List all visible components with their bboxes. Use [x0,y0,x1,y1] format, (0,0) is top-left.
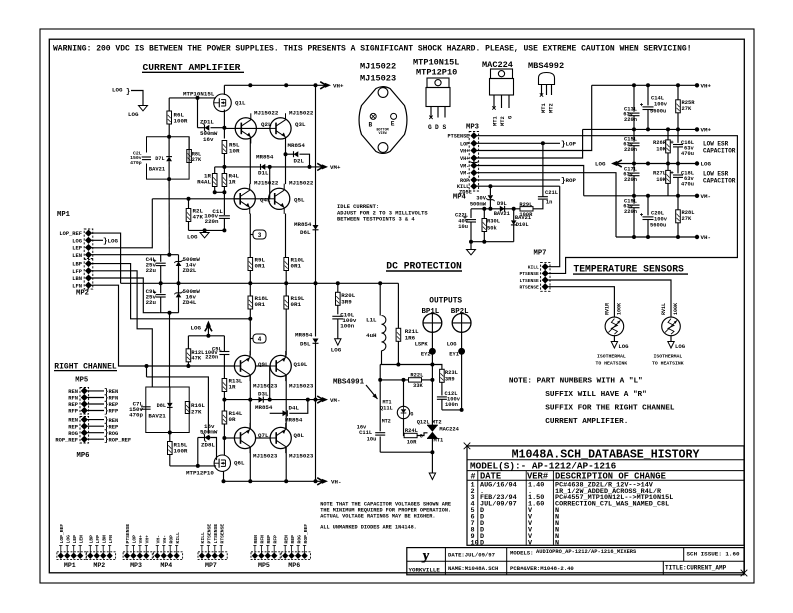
wire [432,365,442,370]
svg-text:MP5: MP5 [258,562,270,569]
resistor R9L 0R1 [248,258,253,271]
resistor R25R 27K [677,85,679,100]
wire Q2L emitter / Q4L collector [249,137,251,184]
svg-text:3R9: 3R9 [445,377,455,383]
svg-text:RIGHT CHANNEL: RIGHT CHANNEL [54,362,117,371]
svg-text:MT1: MT1 [541,103,547,113]
svg-text:47K: 47K [193,214,204,221]
diode D8L BAV21 [169,387,171,403]
svg-text:D1L: D1L [258,170,269,177]
svg-text:SCH ISSUE: 1.60: SCH ISSUE: 1.60 [687,551,740,558]
svg-text:L1L: L1L [366,317,377,324]
capacitor C19L 63v 220n [633,196,635,204]
svg-text:LFN: LFN [72,283,82,289]
net arrow LOG up [205,325,212,331]
svg-text:MR854: MR854 [295,332,313,339]
svg-text:MP3: MP3 [130,562,142,569]
net arrow VH+ [320,82,326,89]
svg-text:B: B [369,121,373,128]
svg-text:MP2: MP2 [93,562,105,569]
svg-text:MT2: MT2 [500,116,506,126]
svg-text:470u: 470u [681,151,694,157]
svg-text:VM+: VM+ [701,127,712,134]
svg-text:VM-: VM- [701,193,711,200]
svg-text:Q1L: Q1L [235,100,246,107]
svg-text:REP: REP [68,402,78,408]
svg-text:LOG: LOG [108,238,119,245]
svg-text:LOG: LOG [675,343,686,350]
svg-text:Q9L: Q9L [258,361,269,368]
svg-text:0R1: 0R1 [255,301,266,308]
svg-text:MJ15023: MJ15023 [360,74,396,84]
svg-text:PTSENSE: PTSENSE [207,524,213,544]
svg-text:1R: 1R [229,384,236,391]
svg-text:JUL/09/97: JUL/09/97 [480,501,517,509]
svg-text:RV1R: RV1R [605,303,611,315]
svg-text:VM-: VM- [330,397,340,404]
svg-text:ROG: ROG [68,431,78,437]
wire VH- bottom rail [224,480,316,482]
svg-text:10u: 10u [458,224,468,230]
svg-text:0R1: 0R1 [291,301,302,308]
svg-text:KILL: KILL [175,532,181,543]
svg-text:TO HEATSINK: TO HEATSINK [652,361,684,367]
svg-text:MP1: MP1 [57,211,71,219]
wire Q10L base [256,365,271,367]
connector MP5 bottom row [251,552,280,560]
capacitor C14L 100v 5600u [647,85,649,105]
wire Q9L emitter / Q7L collector [249,375,251,429]
svg-text:DATE:JUL/09/97: DATE:JUL/09/97 [448,552,495,559]
wire VH+ top rail [224,84,325,86]
resistor R20L 3R9 [337,283,339,292]
svg-text:LEN: LEN [72,253,82,259]
svg-text:MBS4992: MBS4992 [528,61,564,71]
svg-text:RV1L: RV1L [661,303,667,315]
svg-text:470u: 470u [681,182,694,188]
wire node [159,312,178,314]
svg-text:D6L: D6L [300,229,311,236]
svg-text:G: G [508,116,514,119]
transistor Q2L MJ15022 [235,118,256,139]
wire R12L C5L top node [188,335,224,337]
svg-text:ROG: ROG [296,535,302,544]
svg-text:CORRECTION_C7L_WAS_NAMED_C8L: CORRECTION_C7L_WAS_NAMED_C8L [555,501,669,509]
svg-text:LOP: LOP [460,141,469,147]
svg-text:MR854: MR854 [285,417,303,424]
svg-text:BAV21: BAV21 [515,215,531,221]
resistor R26R 10K [667,129,669,140]
svg-text:CURRENT AMPLIFIER: CURRENT AMPLIFIER [143,62,241,73]
svg-text:VH-: VH- [162,535,168,544]
wire VM+ rail [583,128,697,130]
wire from MP2 LBP [92,264,251,319]
wire [170,465,216,467]
wire from MP1 LEN to C4L node [92,254,179,256]
wire from MP2 LBN [92,278,160,313]
eyelet EY2 [431,332,433,364]
wire VM- rail [584,195,697,197]
wire RTSENSE to RV1R [549,287,615,318]
svg-text:MJ15022: MJ15022 [254,110,279,117]
svg-text:RFN: RFN [109,396,119,402]
net arrow VH- [317,478,323,485]
svg-text:D: D [480,539,484,547]
svg-text:LOG: LOG [595,161,606,168]
svg-text:0R: 0R [229,416,236,423]
svg-text:22u: 22u [146,267,157,274]
table M1048A.SCH database history [467,446,744,545]
svg-text:MP2: MP2 [76,290,89,298]
svg-text:LOP_REF: LOP_REF [59,524,65,544]
svg-text:MTP12P10: MTP12P10 [416,68,457,78]
wire Q7L base [224,437,234,439]
svg-text:100v: 100v [654,102,668,108]
wire gate feed [169,97,216,99]
zener ZD4L 500mW 16v [178,283,180,293]
svg-text:RFN: RFN [260,535,266,544]
resistor R16L 27K [185,402,189,414]
svg-text:Q11L: Q11L [380,406,393,412]
svg-text:PTSENSE: PTSENSE [125,524,131,544]
capacitor C15L 63v 220n [633,129,635,141]
svg-text:ZD2L: ZD2L [183,267,197,274]
svg-text:LBN: LBN [101,535,107,544]
svg-text:VH+: VH+ [701,83,712,90]
svg-text:4: 4 [258,336,262,343]
resistor R13L 1R [223,356,225,379]
svg-text:CURRENT AMPLIFIER.: CURRENT AMPLIFIER. [545,418,628,426]
transistor Q7L MJ15023 [234,427,255,448]
wire from MP1 LEP [92,199,153,248]
svg-text:100R: 100R [174,118,188,125]
capacitor C10L 100v 100n [332,315,343,317]
resistor R21L 1R6 [397,283,399,328]
svg-text:LOG: LOG [187,234,198,241]
ground LOG RV1R [611,342,617,349]
svg-text:}: } [126,89,130,97]
corner mark [741,570,748,577]
resistor R10L 0R1 [284,258,289,271]
svg-text:50k: 50k [487,226,497,232]
svg-text:REN: REN [109,389,119,395]
svg-text:VH+: VH+ [460,156,469,162]
svg-text:ISOTHERMAL: ISOTHERMAL [654,354,683,360]
svg-text:ZD8L: ZD8L [201,442,215,449]
svg-text:10: 10 [471,539,479,547]
wire KILL [477,185,560,187]
svg-text:R30L: R30L [487,219,500,225]
svg-text:100n: 100n [340,323,354,330]
svg-text:REN: REN [253,535,259,544]
wire VM- row [224,399,315,401]
svg-text:MJ15023: MJ15023 [253,383,278,390]
svg-text:VM-: VM- [460,171,469,177]
svg-text:G: G [428,124,432,131]
svg-text:MTP12P10: MTP12P10 [186,470,214,477]
resistor R27L 10K [667,164,669,171]
svg-text:MT1: MT1 [493,116,499,126]
wire VH+ a [477,85,592,150]
svg-text:MR854: MR854 [255,404,273,411]
svg-text:VH-: VH- [331,479,341,486]
svg-text:100K: 100K [673,303,679,315]
svg-text:MT2: MT2 [382,419,391,425]
wire LTSENSE to RV1L [549,280,672,317]
wire [285,447,287,481]
svg-text:REN: REN [283,535,289,544]
svg-text:PTSENSE: PTSENSE [519,271,539,277]
svg-text:VH+: VH+ [145,535,151,544]
svg-text:R4AL: R4AL [197,179,211,186]
svg-text:LOG: LOG [128,111,139,118]
svg-text:VM-: VM- [460,164,469,170]
svg-text:SUFFIX WILL HAVE A "R": SUFFIX WILL HAVE A "R" [545,391,647,399]
svg-text:LOG: LOG [618,343,629,350]
title block [407,548,744,575]
svg-text:LBN: LBN [72,276,82,282]
svg-text:VM+: VM+ [330,164,341,171]
svg-text:LFN: LFN [108,535,114,544]
wire VM- a [477,166,584,196]
svg-text:ROP: ROP [168,535,174,544]
connector MP4 bottom row [153,552,182,560]
svg-text:220n: 220n [624,117,637,123]
svg-text:D9L: D9L [497,201,507,207]
resistor R18L 0R1 [249,283,251,296]
wire R22L row [380,379,408,381]
svg-text:MP4: MP4 [160,562,172,569]
ground LOG [139,106,148,111]
svg-text:RFP: RFP [68,409,78,415]
svg-text:10K: 10K [656,177,666,183]
svg-text:ROP: ROP [460,178,469,184]
svg-text:RTSENSE: RTSENSE [519,285,539,291]
svg-text:KILL: KILL [528,265,539,271]
svg-text:PTSENSE: PTSENSE [448,134,470,140]
svg-text:10R: 10R [407,440,417,446]
svg-text:IDLE CURRENT:: IDLE CURRENT: [337,204,379,210]
svg-text:VH-: VH- [156,535,162,544]
svg-text:G: G [410,412,413,418]
wire from MP1 pin1 [92,233,121,283]
svg-text:D4L: D4L [289,405,300,412]
svg-text:220n: 220n [624,209,637,215]
svg-text:470p: 470p [129,412,143,419]
svg-text:D10L: D10L [516,222,529,228]
svg-text:BETWEEN TESTPOINTS 3 & 4: BETWEEN TESTPOINTS 3 & 4 [337,217,415,223]
wire [131,91,143,106]
svg-text:MAC224: MAC224 [439,427,459,433]
svg-text:LOP: LOP [132,535,138,544]
wire VH- rail right [616,236,697,238]
svg-text:BAV21: BAV21 [148,413,166,420]
svg-text:27K: 27K [682,106,692,112]
wire VH+ rail right [592,84,697,86]
svg-text:LTSENSE: LTSENSE [519,278,539,284]
svg-text:VH+: VH+ [460,149,469,155]
svg-text:MJ15023: MJ15023 [289,383,314,390]
svg-text:LOG: LOG [191,325,202,332]
svg-text:220n: 220n [205,218,219,225]
mosfet Q1L MTP10N15L [223,85,225,95]
svg-text:ROP: ROP [566,177,577,184]
svg-text:NAME:M1048A.SCH: NAME:M1048A.SCH [448,565,498,572]
svg-text:ZD4L: ZD4L [183,299,197,306]
svg-text:100n: 100n [445,402,458,408]
net arrow down [429,473,435,480]
svg-text:CAPACITOR: CAPACITOR [703,178,736,185]
svg-text:TEMPERATURE SENSORS: TEMPERATURE SENSORS [573,264,684,275]
wire PTSENSE to right [477,136,737,274]
wire [431,365,433,426]
svg-text:MBS4991: MBS4991 [333,379,365,387]
box with C2L D7L R8L [147,137,190,179]
wire LOG node [189,229,225,231]
svg-text:220n: 220n [205,355,218,361]
border frame inner [49,39,744,573]
svg-text:MR854: MR854 [288,142,306,149]
svg-text:MT2: MT2 [432,420,442,426]
resistor R4AL 1R [214,167,216,174]
wire VH+ b [477,129,583,158]
wire node row [471,208,520,210]
svg-text:Q5L: Q5L [294,197,305,204]
wire from MP2 LFP [92,271,153,387]
svg-text:LOG: LOG [112,87,123,94]
net bracket LOG [92,239,104,241]
svg-text:D7L: D7L [155,156,164,162]
capacitor C13L 63v 220n [633,85,635,111]
resistor R8L 27K [188,137,190,150]
svg-text:BAV21: BAV21 [149,167,165,173]
svg-text:D2L: D2L [294,158,305,165]
svg-text:LOP_REF: LOP_REF [59,231,82,237]
svg-text:REP: REP [290,535,296,544]
wire Q4L base input [152,198,270,200]
svg-text:Q8L: Q8L [294,432,305,439]
inductor L1L 4uH [379,283,381,315]
svg-text:D3L: D3L [258,391,269,398]
svg-text:MP1: MP1 [64,562,76,569]
svg-text:REP: REP [266,535,272,544]
wire LOG row [616,160,622,167]
svg-text:LSPK: LSPK [415,342,429,348]
testpoint 4 [250,338,253,340]
svg-text:ADJUST FOR 2 TO 3 MILLIVOLTS: ADJUST FOR 2 TO 3 MILLIVOLTS [337,210,428,216]
svg-text:Q3L: Q3L [295,121,306,128]
svg-text:MT1: MT1 [434,438,444,444]
box with C7L D8L R16L [146,387,189,433]
svg-text:PCB#&VER:M1048-2.40: PCB#&VER:M1048-2.40 [510,565,574,572]
testpoint 3 [250,234,253,236]
svg-text:ZD1L: ZD1L [200,119,214,126]
svg-text:4uH: 4uH [366,332,377,339]
wire to ZD8L [147,377,209,434]
svg-text:LEP: LEP [72,246,82,252]
junction dots on VH+ rail [248,83,252,87]
wire Q10L emitter / Q8L collector [285,375,287,429]
svg-text:LOP: LOP [566,141,577,148]
svg-text:33K: 33K [413,383,423,389]
svg-text:0R1: 0R1 [291,263,302,270]
svg-text:VIEW: VIEW [379,132,388,136]
wire [249,447,251,481]
wire protection network [379,365,381,432]
svg-text:LOG: LOG [447,342,457,348]
svg-text:BAV21: BAV21 [494,211,510,217]
wire LOP [477,142,560,144]
svg-text:LOG: LOG [701,161,712,168]
transistor Q9L MJ15023 [234,355,255,376]
capacitor C16L 63v 470u [677,129,679,143]
svg-text:REP: REP [68,424,78,430]
wire Q3L emitter / Q5L collector [285,137,287,184]
svg-text:27K: 27K [192,157,202,163]
svg-text:27K: 27K [191,409,202,416]
svg-text:ISOTHERMAL: ISOTHERMAL [597,354,626,360]
svg-text:Q6L: Q6L [234,460,245,467]
wire [223,110,225,139]
svg-text:NOTE: PART NUMBERS WITH A "L": NOTE: PART NUMBERS WITH A "L" [509,377,643,385]
svg-text:MODELS:: MODELS: [510,550,534,557]
svg-text:LOW ESR: LOW ESR [703,141,729,148]
svg-text:OUTPUTS: OUTPUTS [429,298,462,306]
wire [380,364,432,366]
svg-text:MR854: MR854 [294,221,312,228]
svg-text:REN: REN [68,389,78,395]
svg-text:MP6: MP6 [288,562,300,569]
svg-text:MR854: MR854 [256,154,274,161]
svg-text:AUG/16/94: AUG/16/94 [480,481,517,489]
connector MP1 bottom row [57,552,86,560]
wire [403,419,406,436]
svg-text:ROP_REF: ROP_REF [55,437,78,443]
transistor Q5L MJ15022 [269,188,290,209]
svg-text:MJ15022: MJ15022 [289,180,314,187]
ground [335,339,341,346]
wire [442,409,462,411]
svg-text:RTSENSE: RTSENSE [219,524,225,544]
svg-text:REN: REN [68,418,78,424]
svg-text:VH+: VH+ [138,535,144,544]
svg-text:ALL UNMARKED DIODES ARE 1N4148: ALL UNMARKED DIODES ARE 1N4148. [320,525,417,531]
resistor R30L 50k [483,209,485,219]
svg-text:G: G [420,434,423,440]
svg-text:AUDIOPRO_AP-1212/AP-1216_MIXER: AUDIOPRO_AP-1212/AP-1216_MIXERS [536,549,637,555]
capacitor C9L 25v 22u [160,283,162,293]
svg-text:SUFFIX FOR THE RIGHT CHANNEL: SUFFIX FOR THE RIGHT CHANNEL [545,405,675,413]
svg-text:16v: 16v [203,136,214,143]
wire Q5L base [269,167,271,199]
svg-text:LFP: LFP [72,269,82,275]
svg-text:470p: 470p [130,160,142,166]
wire down to D8L box [169,313,171,387]
svg-text:100K: 100K [617,303,623,315]
svg-text:3: 3 [258,232,262,239]
svg-text:22u: 22u [146,299,157,306]
svg-text:1n: 1n [546,200,552,206]
eyelet EY1 [461,332,463,410]
svg-text:100R: 100R [174,448,188,455]
svg-text:ACTUAL VOLTAGE RATINGS MAY BE: ACTUAL VOLTAGE RATINGS MAY BE HIGHER. [320,513,435,519]
svg-text:500mW: 500mW [470,202,487,208]
svg-text:RFN: RFN [68,396,78,402]
svg-text:MJ15023: MJ15023 [253,453,278,460]
svg-text:3R9: 3R9 [341,299,352,306]
wire [403,380,405,406]
wire Q4L emitter chain [249,214,251,258]
